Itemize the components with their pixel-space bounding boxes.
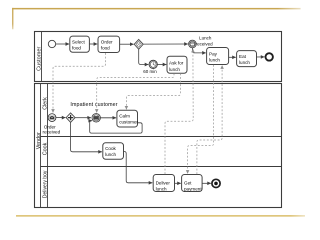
- svg-text:Get: Get: [184, 180, 192, 185]
- flow Deliver lunch to Get payment: [175, 182, 181, 184]
- start event (Customer): [48, 40, 55, 47]
- intermediate event Impatient customer: [70, 102, 117, 122]
- svg-text:customer: customer: [119, 120, 138, 125]
- message flow Pay lunch to Get payment: [188, 65, 214, 174]
- timer event 60 min: [143, 60, 157, 74]
- svg-text:food: food: [101, 45, 110, 50]
- flow Select food to Order food: [90, 43, 98, 45]
- terminate end event (Delivery boy): [212, 179, 220, 187]
- svg-text:lunch: lunch: [105, 152, 116, 157]
- svg-text:Impatient customer: Impatient customer: [70, 102, 117, 108]
- svg-text:Select: Select: [72, 39, 85, 44]
- svg-text:Delivery boy: Delivery boy: [42, 170, 48, 198]
- svg-text:Order: Order: [101, 39, 113, 44]
- svg-text:Pay: Pay: [209, 51, 218, 56]
- svg-text:lunch: lunch: [156, 186, 167, 191]
- svg-text:lunch: lunch: [169, 67, 180, 72]
- task Deliver lunch: [153, 175, 174, 192]
- flow parallel gateway down to Cook lunch: [71, 122, 102, 152]
- svg-text:Deliver: Deliver: [156, 180, 171, 185]
- message start event Order received: [43, 114, 61, 135]
- flow Eat lunch to end event: [257, 56, 265, 58]
- gold left vertical rule: [12, 8, 13, 29]
- gold bottom rule: [16, 215, 305, 217]
- flow gateway to Impatient customer event: [75, 117, 91, 119]
- pool Vendor: [35, 84, 282, 208]
- flow timer to Ask for lunch: [157, 64, 166, 66]
- svg-text:received: received: [43, 129, 61, 134]
- svg-text:Clerk: Clerk: [42, 97, 48, 110]
- flow Pay lunch to Eat lunch: [229, 56, 236, 58]
- task Pay lunch: [207, 48, 229, 65]
- task Select food: [70, 36, 90, 52]
- flow gateway to Lunch received: [143, 43, 188, 45]
- svg-text:Cook: Cook: [105, 146, 116, 151]
- flow Impatient event to Calm customer: [100, 117, 116, 119]
- flow Cook lunch to Deliver lunch: [124, 152, 153, 183]
- svg-text:Lunch: Lunch: [199, 36, 212, 41]
- pool Customer: [35, 32, 282, 82]
- svg-text:lunch: lunch: [209, 57, 220, 62]
- flow Lunch received to Pay lunch: [192, 48, 205, 53]
- svg-text:food: food: [72, 45, 81, 50]
- message flow Get payment to Pay lunch: [197, 65, 222, 174]
- loop flow Calm customer back to Impatient event: [90, 121, 142, 133]
- flow Order received to parallel gateway: [56, 117, 65, 119]
- message flow Deliver lunch to Lunch received: [165, 49, 193, 174]
- task Calm customer: [117, 110, 139, 127]
- svg-text:Cook: Cook: [42, 142, 48, 155]
- svg-text:lunch: lunch: [239, 60, 250, 65]
- task Ask for lunch: [167, 56, 187, 73]
- svg-text:60 min: 60 min: [143, 69, 157, 74]
- flow gateway down to timer: [139, 49, 149, 64]
- event-based gateway: [134, 39, 143, 49]
- svg-text:received: received: [196, 42, 214, 47]
- parallel gateway: [66, 113, 75, 122]
- task Cook lunch: [103, 143, 124, 159]
- task Get payment: [182, 175, 203, 192]
- message flow Order food to Order received: [53, 53, 105, 113]
- flow start to Select food: [56, 43, 69, 45]
- end event (Customer): [266, 53, 273, 60]
- message flow Ask for lunch to Impatient event: [97, 73, 174, 112]
- flow Get payment to terminate end: [202, 182, 211, 184]
- svg-text:Ask for: Ask for: [169, 61, 184, 66]
- svg-text:Eat: Eat: [239, 54, 247, 59]
- svg-text:Calm: Calm: [119, 114, 130, 119]
- intermediate message event Lunch received: [189, 36, 214, 48]
- message flow Ask for lunch to Calm customer: [126, 73, 180, 109]
- gold top rule: [12, 8, 301, 9]
- task Eat lunch: [237, 51, 257, 67]
- svg-text:payment: payment: [184, 186, 202, 191]
- task Order food: [98, 36, 120, 52]
- svg-text:Vendor: Vendor: [36, 132, 42, 149]
- svg-text:Customer: Customer: [37, 47, 43, 71]
- flow Order food to gateway: [120, 43, 134, 45]
